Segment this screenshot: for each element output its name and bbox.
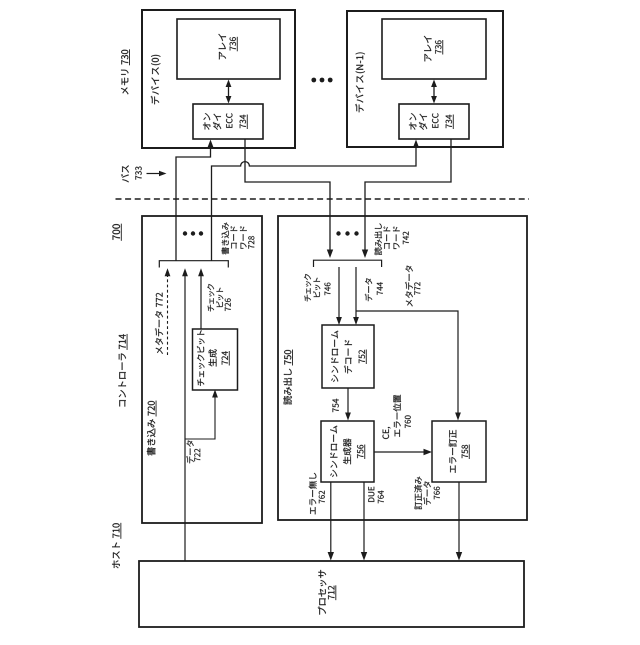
array-ECC arrowhead up (device 0)	[226, 80, 232, 88]
label: CE,	[383, 434, 390, 439]
label: 734	[240, 124, 246, 128]
on-die ECC 734 box (device N-1)	[399, 104, 469, 139]
data 744 wire	[355, 267, 357, 320]
label: オン	[409, 122, 416, 129]
label: ECC	[432, 124, 438, 128]
label: ワード	[394, 243, 400, 249]
arrowhead into on-die ECC (device 0)	[207, 140, 213, 149]
DUE 764 wire	[363, 482, 365, 555]
label: 726	[225, 307, 231, 311]
metadata 772 arrowhead into error correction	[455, 413, 461, 421]
metadata 772 arrowhead	[165, 268, 171, 276]
label: 訂正済み	[415, 502, 422, 510]
label: ビット	[313, 291, 320, 297]
wire: read codeword from device 0	[245, 139, 330, 252]
data 744 arrowhead into syndrome decode	[353, 317, 359, 325]
data 722 wire (processor to write codeword)	[184, 274, 186, 562]
check bits 726 wire	[200, 274, 202, 330]
label: 758	[462, 454, 468, 458]
array-ECC double arrow line (device 0)	[228, 86, 230, 97]
metadata 772 branch wire (read)	[356, 311, 458, 416]
syndrome 754 wire	[347, 388, 349, 416]
data 722 arrowhead into bracket	[182, 268, 188, 276]
label: データ	[365, 294, 372, 301]
dashed separator line (memory/controller)	[116, 198, 530, 200]
wire: write codeword to device 0	[176, 144, 211, 261]
wire: write codeword to device N-1 (with hop)	[212, 144, 417, 261]
label: シンドローム	[331, 375, 338, 382]
label: エラー訂正	[450, 465, 456, 472]
label: ECC	[226, 124, 232, 128]
764 arrowhead into processor	[361, 552, 367, 561]
label: 724	[222, 361, 228, 365]
ellipsis dots in read box	[336, 231, 358, 235]
label: コントローラ 714	[119, 400, 125, 406]
array-ECC double arrow line (device N-1)	[433, 86, 435, 97]
label: 722	[194, 458, 200, 462]
label: チェック	[304, 295, 310, 302]
array-ECC arrowhead down (device 0)	[226, 96, 232, 104]
label: シンドローム	[330, 470, 337, 477]
label: 700	[113, 235, 120, 240]
error correction 758 box	[432, 421, 486, 482]
label: デコード	[344, 365, 352, 373]
data branch to check-bit generation	[185, 395, 215, 440]
label: 744	[377, 291, 383, 295]
label texts (rotated 90deg CCW)	[112, 34, 468, 615]
check bits 746 wire	[338, 267, 340, 320]
label: 書き込み	[221, 247, 229, 254]
syndrome decode 752 box	[322, 325, 374, 388]
check bits 726 arrowhead into bracket	[198, 268, 204, 276]
label: 736	[230, 47, 236, 51]
label: エラー位置	[395, 430, 400, 437]
array-ECC arrowhead down (device N-1)	[431, 96, 437, 104]
array 736 box (device N-1)	[382, 19, 486, 79]
label: 生成器	[343, 456, 351, 464]
read section 750 box	[278, 216, 527, 520]
label: DUE	[368, 498, 374, 502]
label: 752	[359, 359, 365, 363]
memory device(N-1) box	[347, 11, 503, 147]
array-ECC arrowhead up (device N-1)	[431, 80, 437, 88]
check bits 746 arrowhead into syndrome decode	[336, 317, 342, 325]
766 arrowhead into processor	[456, 552, 462, 561]
label: アレイ	[219, 52, 226, 60]
label: デバイス(N‑1)	[355, 104, 363, 112]
760 arrowhead into error correction	[424, 449, 433, 455]
label: ダイ	[419, 122, 427, 130]
label: メタデータ 772	[156, 347, 163, 354]
label: エラー無し	[310, 507, 315, 514]
label: 生成	[209, 358, 217, 366]
label: メモリ 730	[121, 87, 128, 94]
label: 766	[434, 496, 440, 500]
no-error 762 wire	[330, 482, 332, 555]
label: コード	[231, 243, 237, 249]
label: チェックビット	[197, 379, 204, 386]
label: メタデータ	[406, 300, 413, 307]
on-die ECC 734 box (device 0)	[193, 104, 263, 139]
label: ワード	[241, 243, 247, 249]
read codeword 742 bracket	[314, 260, 382, 267]
label: 746	[325, 291, 331, 295]
762 arrowhead into processor	[328, 552, 334, 561]
ellipsis dots in write box	[183, 231, 203, 235]
label: 764	[378, 500, 384, 504]
arrowhead into on-die ECC (device N-1)	[413, 140, 419, 149]
label: 書き込み 720	[147, 447, 156, 455]
arrowhead into read codeword bracket (from device N-1)	[362, 250, 368, 259]
wire: read codeword from device N-1	[365, 139, 451, 252]
label: 読み出し 750	[283, 396, 292, 405]
label: コード	[384, 243, 390, 249]
label: 728	[248, 245, 254, 249]
label: 読み出し	[374, 247, 382, 255]
label: ホスト 710	[112, 560, 120, 568]
ellipsis dots between devices	[311, 78, 332, 83]
label: アレイ	[424, 54, 431, 62]
label: データ	[423, 497, 431, 505]
label: 742	[403, 240, 409, 244]
metadata 772 dashed wire (write)	[167, 274, 169, 356]
label: 734	[446, 124, 452, 128]
corrected data 766 wire	[458, 482, 460, 555]
label: チェック	[208, 305, 214, 312]
label: 712	[328, 595, 334, 599]
label: データ	[186, 456, 193, 463]
array 736 box (device 0)	[177, 19, 280, 79]
label: プロセッサ	[318, 607, 326, 615]
write codeword 728 bracket	[159, 261, 228, 268]
write section 720 box	[142, 216, 262, 523]
CE / error location 760 wire	[374, 451, 426, 453]
bus 733 arrowhead	[159, 171, 167, 177]
label: 736	[435, 50, 441, 54]
check-bit generation 724 box	[193, 329, 238, 390]
bus 733 arrow line	[147, 173, 161, 175]
label: 772	[414, 291, 420, 295]
label: ダイ	[213, 122, 221, 130]
processor 712 box	[139, 561, 524, 627]
label: 754	[333, 408, 339, 412]
arrowhead into read codeword bracket (from device 0)	[327, 250, 333, 259]
label: 733	[135, 176, 141, 180]
arrowhead into check-bit generation box	[212, 390, 218, 398]
label: 760	[405, 424, 411, 428]
label: デバイス(0)	[151, 96, 159, 104]
label: オン	[203, 122, 210, 129]
label: ビット	[216, 301, 223, 307]
label: 756	[357, 454, 363, 458]
syndrome generator 756 box	[321, 421, 374, 482]
memory device(0) box 732	[142, 10, 295, 148]
label: 762	[319, 500, 325, 504]
754 arrowhead into syndrome generator	[345, 413, 351, 421]
label: バス	[121, 174, 129, 182]
